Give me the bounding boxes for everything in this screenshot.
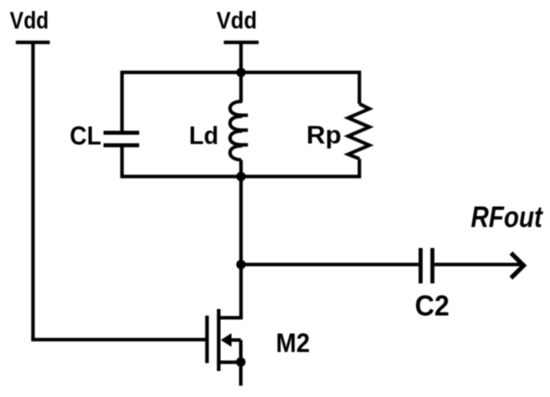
node: output junction <box>236 260 246 270</box>
svg-text:Vdd: Vdd <box>217 7 258 34</box>
svg-text:RFout: RFout <box>471 201 544 234</box>
node: tank bottom junction <box>236 172 246 182</box>
svg-text:Ld: Ld <box>189 122 219 150</box>
node: source-bulk junction <box>236 357 246 367</box>
resistor Rp zigzag <box>348 104 369 159</box>
wire: Rp branch lower <box>358 159 362 178</box>
capacitor C2 left plate <box>419 248 423 283</box>
wire: output horizontal to C2 <box>241 263 419 267</box>
svg-text:C2: C2 <box>415 290 450 322</box>
wire: source stub down <box>239 362 243 386</box>
wire: drain column from tank to output node to drain step <box>239 177 243 318</box>
transistor M2 channel bar <box>217 309 221 371</box>
svg-text:M2: M2 <box>276 328 310 358</box>
svg-text:CL: CL <box>70 120 102 150</box>
wire: left Vdd vertical down <box>31 42 35 339</box>
wire: output to arrow <box>434 263 521 267</box>
wire: tank bottom rail <box>122 175 359 179</box>
transistor M2 gate bar <box>205 316 209 364</box>
svg-text:Vdd: Vdd <box>10 7 49 34</box>
transistor M2 source wire <box>219 360 241 364</box>
wire: tank top rail <box>122 71 359 75</box>
transistor M2 bulk arrowhead <box>221 333 232 347</box>
wire: Rp branch upper <box>358 71 362 104</box>
node: tank top junction <box>236 68 246 78</box>
capacitor C2 right plate <box>430 248 434 283</box>
Vdd supply symbol left: bar <box>16 41 50 45</box>
wire: drain step horizontal <box>219 316 243 320</box>
wire: CL branch upper <box>120 71 124 131</box>
wire: CL branch lower <box>120 147 124 178</box>
inductor Ld coil curls <box>230 101 248 159</box>
wire: Ld branch lower <box>239 160 243 177</box>
capacitor CL top plate <box>104 131 140 135</box>
wire: center Vdd vertical to tank top rail <box>239 42 243 72</box>
svg-text:Rp: Rp <box>306 121 341 149</box>
capacitor CL bottom plate <box>104 143 140 147</box>
transistor M2 bulk wire <box>229 338 241 342</box>
wire: gate feed horizontal to M2 gate <box>31 338 207 342</box>
wire: Ld branch upper <box>239 72 243 102</box>
Vdd supply symbol center: bar <box>224 41 259 45</box>
arrowhead RFout chevron <box>511 253 524 278</box>
